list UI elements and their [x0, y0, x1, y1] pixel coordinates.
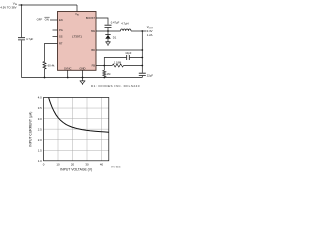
svg-text:1.0: 1.0 — [38, 159, 42, 163]
wire R1 to VOUT — [124, 65, 143, 67]
svg-text:D1: DIODES INC. DFLS240: D1: DIODES INC. DFLS240 — [91, 84, 140, 88]
svg-text:FB: FB — [92, 64, 96, 68]
capacitor C2 0.47uF — [105, 25, 112, 27]
wire RT — [45, 44, 58, 62]
wire SS stub — [53, 36, 58, 38]
gridlines — [44, 98, 109, 161]
svg-text:30: 30 — [85, 163, 89, 167]
wire FB — [96, 65, 112, 67]
capacitor C4 10pF branch — [104, 58, 142, 66]
svg-text:2.0: 2.0 — [38, 138, 42, 142]
svg-text:LT3971: LT3971 — [72, 35, 82, 39]
wire VIN rail top — [19, 4, 78, 6]
wire VOUT vertical — [141, 31, 143, 73]
svg-text:3971 TA01b: 3971 TA01b — [111, 165, 121, 168]
wire input branch upper — [21, 5, 23, 37]
svg-text:SYNC: SYNC — [64, 66, 72, 70]
wire SW to VOUT — [131, 30, 147, 32]
svg-text:OFF: OFF — [37, 17, 43, 21]
svg-text:BD: BD — [91, 48, 95, 52]
capacitor C3 22uF — [139, 73, 146, 75]
svg-text:GND: GND — [80, 66, 86, 70]
svg-text:SW: SW — [91, 29, 96, 33]
wire RT resistor to ground — [44, 69, 46, 78]
resistor R2 1M — [103, 66, 106, 78]
wire SW — [96, 30, 121, 32]
chart frame — [28, 96, 120, 172]
wire VIN pin stub — [76, 5, 78, 12]
svg-text:D1: D1 — [113, 36, 117, 40]
svg-text:60.4k: 60.4k — [48, 64, 55, 68]
svg-text:40: 40 — [100, 163, 104, 167]
diode D1 — [107, 31, 109, 34]
svg-text:1.18M: 1.18M — [114, 60, 122, 64]
svg-text:10: 10 — [56, 163, 60, 167]
node VOUT junction — [141, 30, 143, 32]
wire EN — [50, 19, 58, 21]
svg-text:INPUT CURRENT (µA): INPUT CURRENT (µA) — [28, 112, 32, 147]
resistor R1 1.18M — [112, 64, 123, 67]
node SW junction — [107, 30, 109, 32]
svg-text:10pF: 10pF — [125, 51, 131, 55]
ground (diode) — [105, 41, 110, 43]
svg-text:4.5V TO 38V: 4.5V TO 38V — [0, 6, 16, 10]
wire BD to VOUT — [96, 49, 142, 51]
svg-text:BOOST: BOOST — [86, 16, 95, 20]
svg-text:0.47µF: 0.47µF — [111, 21, 120, 25]
capacitor C1 4.7uF — [18, 38, 25, 40]
node VIN input label — [0, 2, 17, 10]
svg-text:4.7µF: 4.7µF — [26, 37, 33, 41]
svg-text:2.5: 2.5 — [38, 127, 42, 131]
op-amp U1 LT3971 body — [58, 12, 97, 71]
svg-text:SS: SS — [59, 35, 63, 39]
inductor L1 4.7uH — [121, 29, 131, 31]
wire ground rail — [22, 77, 143, 79]
node VOUT label — [147, 25, 154, 37]
y tick labels — [38, 96, 42, 163]
node OFF/ON label — [37, 17, 49, 21]
svg-text:1.2A: 1.2A — [147, 33, 153, 37]
svg-text:EN: EN — [59, 18, 63, 22]
svg-text:RT: RT — [59, 42, 63, 46]
axes frame — [44, 98, 109, 161]
wire BOOST to boost cap — [96, 18, 108, 25]
svg-text:ON: ON — [45, 17, 49, 21]
svg-text:20: 20 — [71, 163, 75, 167]
wire input branch lower — [21, 40, 23, 77]
wire PG stub — [53, 29, 58, 31]
svg-text:4.0: 4.0 — [38, 96, 42, 100]
svg-text:3.0: 3.0 — [38, 117, 42, 121]
curve input current — [49, 98, 109, 133]
ground (main) — [82, 78, 84, 81]
svg-text:PG: PG — [59, 28, 63, 32]
svg-text:1.5: 1.5 — [38, 148, 42, 152]
x tick labels — [43, 163, 104, 167]
svg-text:3.5: 3.5 — [38, 106, 42, 110]
svg-text:22µF: 22µF — [147, 73, 154, 77]
node junction VIN — [21, 4, 23, 6]
svg-text:INPUT VOLTAGE (V): INPUT VOLTAGE (V) — [60, 167, 92, 171]
resistor R3 60.4k — [43, 62, 46, 70]
svg-text:4.7µH: 4.7µH — [121, 22, 128, 26]
